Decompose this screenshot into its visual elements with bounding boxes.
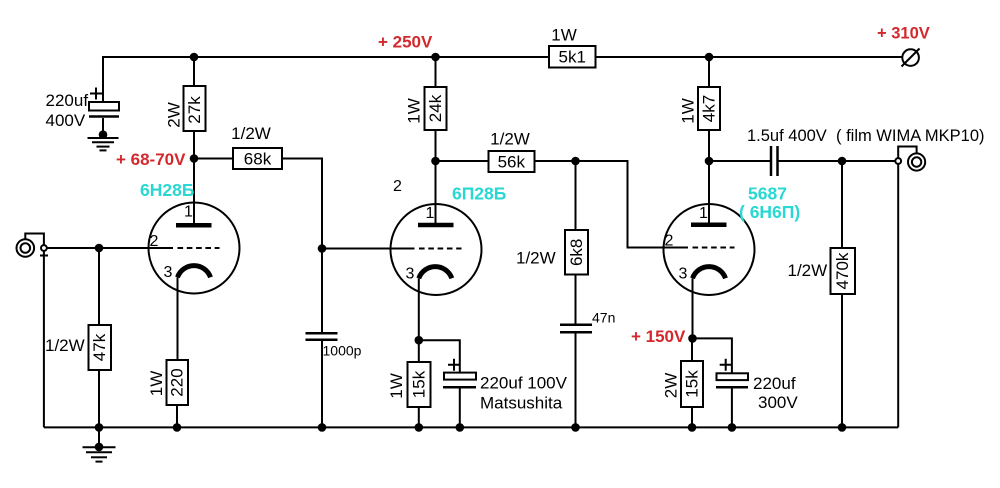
svg-text:220uf: 220uf xyxy=(46,91,89,110)
svg-text:5687: 5687 xyxy=(748,184,787,204)
svg-text:56k: 56k xyxy=(498,153,526,172)
svg-text:2: 2 xyxy=(665,233,674,250)
svg-text:2W: 2W xyxy=(662,373,681,399)
svg-text:1W: 1W xyxy=(147,371,166,397)
svg-text:6k8: 6k8 xyxy=(567,239,586,266)
svg-text:1: 1 xyxy=(184,204,193,221)
svg-text:( 6Н6П): ( 6Н6П) xyxy=(739,202,800,222)
svg-text:1W: 1W xyxy=(551,26,577,45)
svg-text:1: 1 xyxy=(426,205,435,222)
svg-text:6Н28Б: 6Н28Б xyxy=(140,180,194,200)
svg-text:6П28Б: 6П28Б xyxy=(452,184,506,204)
svg-text:+ 150V: + 150V xyxy=(631,327,686,346)
svg-text:1/2W: 1/2W xyxy=(45,336,85,355)
svg-text:15k: 15k xyxy=(683,370,702,398)
svg-text:3: 3 xyxy=(406,266,415,283)
svg-text:2: 2 xyxy=(393,178,402,195)
svg-text:300V: 300V xyxy=(758,393,798,412)
svg-text:+ 68-70V: + 68-70V xyxy=(116,150,186,169)
svg-text:220: 220 xyxy=(168,368,187,396)
svg-text:3: 3 xyxy=(679,266,688,283)
svg-text:27k: 27k xyxy=(185,96,204,124)
svg-text:1/2W: 1/2W xyxy=(516,249,556,268)
svg-text:1W: 1W xyxy=(387,373,406,399)
svg-text:+ 250V: + 250V xyxy=(378,33,433,52)
svg-text:220uf: 220uf xyxy=(753,374,796,393)
svg-text:2: 2 xyxy=(150,233,159,250)
svg-text:15k: 15k xyxy=(410,370,429,398)
svg-text:24k: 24k xyxy=(426,94,445,122)
svg-text:1: 1 xyxy=(699,205,708,222)
svg-text:400V: 400V xyxy=(46,111,86,130)
svg-text:1W: 1W xyxy=(405,98,424,124)
svg-text:1.5uf 400V ( film WIMA MKP10): 1.5uf 400V ( film WIMA MKP10) xyxy=(747,127,985,145)
svg-text:Matsushita: Matsushita xyxy=(480,394,563,413)
svg-text:47k: 47k xyxy=(90,333,109,361)
svg-text:68k: 68k xyxy=(244,150,272,169)
svg-text:1W: 1W xyxy=(679,98,698,124)
svg-text:1000p: 1000p xyxy=(323,343,362,359)
svg-text:3: 3 xyxy=(164,264,173,281)
svg-text:5k1: 5k1 xyxy=(558,48,585,67)
svg-text:1/2W: 1/2W xyxy=(231,124,271,143)
svg-text:+ 310V: + 310V xyxy=(877,25,930,43)
svg-text:470k: 470k xyxy=(833,252,852,289)
svg-text:2W: 2W xyxy=(165,102,184,128)
svg-text:1/2W: 1/2W xyxy=(788,261,828,280)
svg-text:47n: 47n xyxy=(592,310,615,326)
svg-text:4k7: 4k7 xyxy=(700,95,719,122)
svg-text:1/2W: 1/2W xyxy=(490,130,530,149)
svg-text:220uf 100V: 220uf 100V xyxy=(480,374,568,393)
